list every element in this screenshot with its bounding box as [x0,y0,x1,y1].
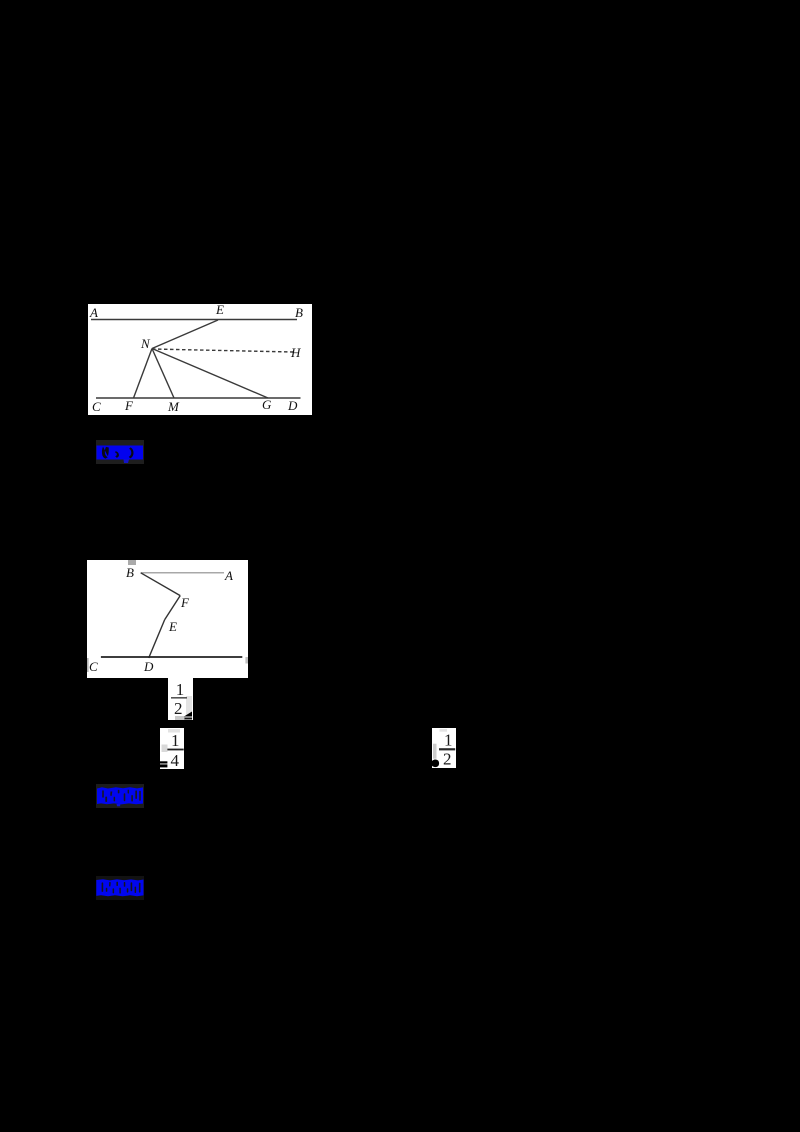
svg-text:M: M [167,399,180,414]
svg-text:F: F [124,398,134,413]
svg-text:1: 1 [444,731,453,750]
svg-text:F: F [180,595,190,610]
svg-text:B: B [295,305,303,320]
svg-text:C: C [89,659,98,674]
svg-text:D: D [143,659,154,674]
svg-text:B: B [126,565,134,580]
svg-text:D: D [287,398,298,413]
svg-text:2: 2 [443,750,452,768]
svg-text:1: 1 [171,731,180,750]
svg-text:C: C [92,399,101,414]
svg-text:H: H [290,345,301,360]
svg-text:4: 4 [170,751,179,770]
svg-text:G: G [262,397,272,412]
svg-text:E: E [215,304,224,317]
svg-text:E: E [168,619,177,634]
svg-text:A: A [89,305,98,320]
svg-text:1: 1 [175,680,184,699]
svg-text:N: N [140,336,151,351]
svg-text:A: A [224,568,233,583]
svg-text:2: 2 [174,699,183,718]
